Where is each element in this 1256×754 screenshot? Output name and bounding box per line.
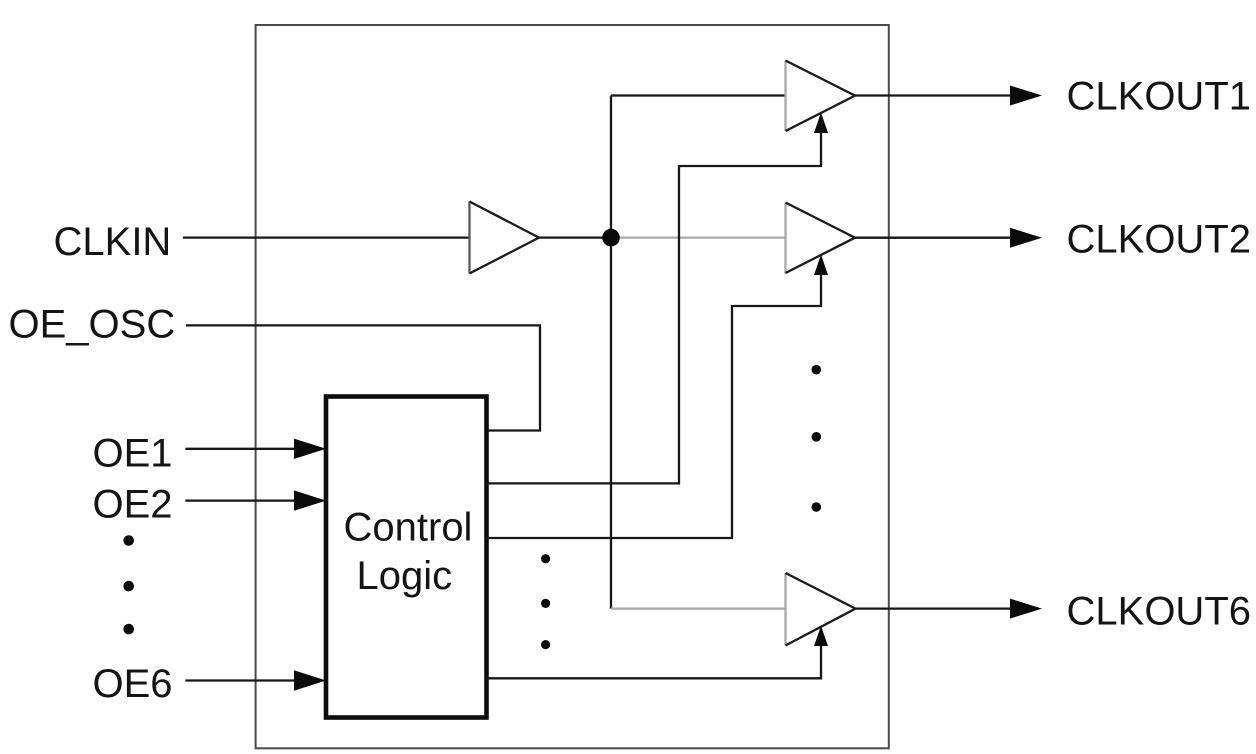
wire OE6 input — [185, 679, 300, 681]
svg-text:Control: Control — [344, 506, 473, 550]
svg-text:OE6: OE6 — [93, 662, 173, 706]
wire CLKOUT6 output — [856, 607, 1015, 609]
wire enable EN1 from control logic to buffer U2 — [486, 116, 821, 483]
svg-text:OE_OSC: OE_OSC — [9, 303, 176, 347]
wire OE2 input — [185, 499, 300, 501]
buffer U4 CLKOUT6 — [786, 573, 856, 646]
wire gray to buffer U3 — [611, 236, 786, 238]
chip boundary box — [256, 25, 889, 748]
arrowhead CLKOUT2 — [1010, 228, 1042, 248]
wire OE_OSC — [186, 325, 540, 430]
wire OE1 input — [185, 448, 300, 450]
wire CLKIN input — [183, 236, 470, 238]
ellipsis dots middle — [541, 554, 550, 649]
wire to buffer U2 — [611, 94, 786, 96]
buffer U1 input buffer — [470, 202, 540, 274]
wire clock trunk vertical — [610, 96, 612, 609]
svg-text:CLKIN: CLKIN — [54, 220, 172, 264]
buffer U2 CLKOUT1 — [786, 61, 856, 132]
ellipsis dots right — [812, 365, 822, 512]
arrowhead OE6 — [294, 670, 326, 690]
svg-text:Logic: Logic — [357, 554, 453, 598]
arrowhead OE1 — [294, 439, 326, 459]
svg-text:OE1: OE1 — [93, 431, 173, 475]
wire gray to buffer U4 — [611, 607, 786, 609]
svg-text:CLKOUT2: CLKOUT2 — [1067, 218, 1252, 262]
arrowhead enable EN6 — [814, 626, 828, 646]
buffer U3 CLKOUT2 — [786, 203, 856, 274]
arrowhead CLKOUT1 — [1010, 86, 1042, 106]
svg-text:CLKOUT6: CLKOUT6 — [1067, 589, 1252, 633]
svg-text:OE2: OE2 — [93, 482, 173, 526]
svg-text:CLKOUT1: CLKOUT1 — [1067, 74, 1252, 118]
wire CLKOUT1 output — [855, 94, 1014, 96]
wire CLKOUT2 output — [855, 237, 1014, 239]
arrowhead enable EN1 — [814, 113, 828, 134]
wire U1 output to junction — [539, 236, 611, 238]
arrowhead OE2 — [294, 490, 326, 510]
arrowhead enable EN2 — [814, 255, 828, 276]
wire enable EN6 from control logic to buffer U4 — [486, 629, 821, 678]
wire enable EN2 from control logic to buffer U3 — [486, 258, 821, 538]
node junction dot — [602, 229, 620, 247]
component Control Logic block — [326, 397, 487, 718]
ellipsis dots left — [123, 535, 134, 634]
arrowhead CLKOUT6 — [1010, 599, 1042, 619]
